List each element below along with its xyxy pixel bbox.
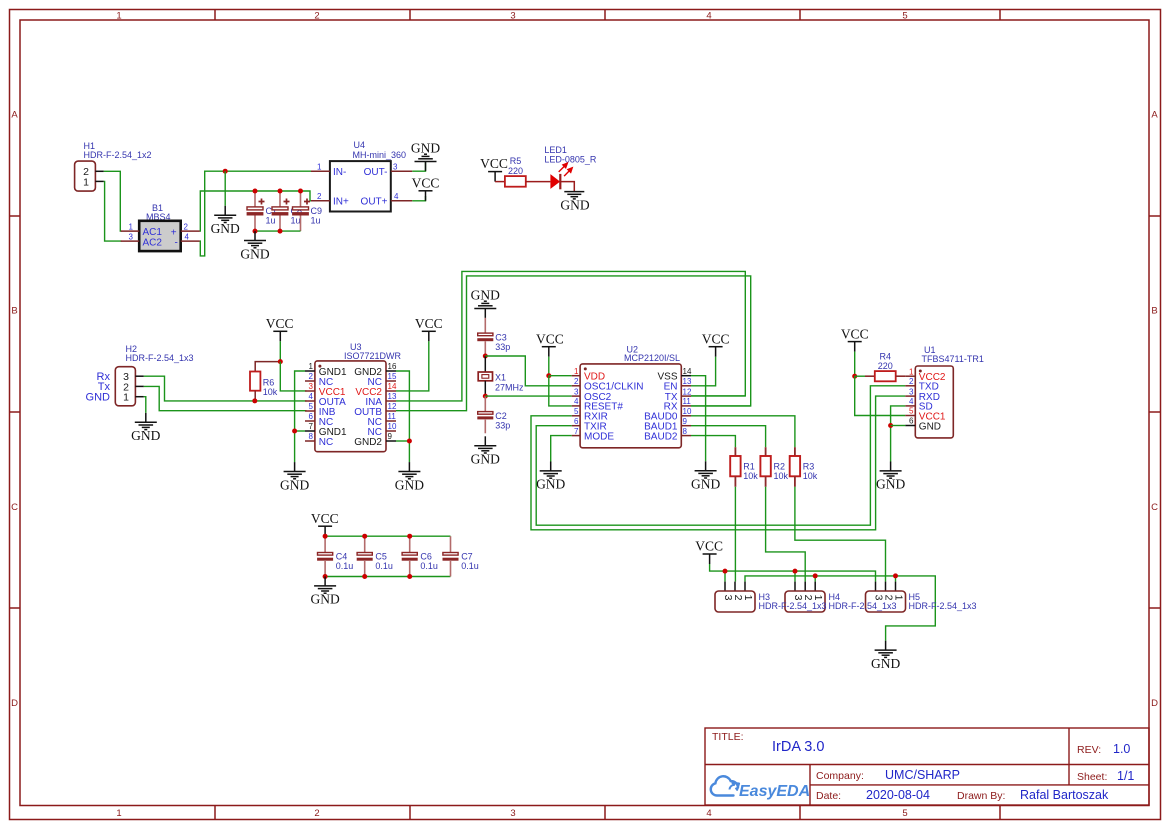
capacitor C2 bbox=[477, 396, 510, 433]
U3 pin 16 GND2 bbox=[354, 362, 397, 378]
U2 pin 3 OSC2 bbox=[572, 387, 612, 403]
ground (U2 MODE) bbox=[536, 462, 565, 492]
svg-text:GND: GND bbox=[536, 477, 565, 492]
U3 pin 5 INB bbox=[305, 402, 336, 418]
VCC flag (decoupling) bbox=[311, 511, 339, 536]
wire U2 TXIR to U1 TXD bbox=[536, 386, 905, 525]
svg-text:D: D bbox=[11, 698, 18, 709]
svg-text:1: 1 bbox=[129, 222, 134, 231]
U1 pin 3 RXD bbox=[905, 387, 940, 403]
svg-text:4: 4 bbox=[394, 192, 399, 201]
wire VCC down to junction bbox=[279, 341, 281, 361]
svg-text:R5: R5 bbox=[510, 156, 522, 166]
U2 pin 2 OSC1/CLKIN bbox=[572, 377, 644, 393]
U3 pin 6 NC bbox=[305, 412, 333, 428]
H1 pin 1 bbox=[95, 180, 103, 182]
H2 pin 1 bbox=[135, 396, 143, 398]
U2 pin 6 TXIR bbox=[572, 417, 607, 433]
H2 pin 3 bbox=[135, 375, 143, 377]
junction C4 bottom bbox=[323, 574, 328, 579]
junction X1 bottom bbox=[483, 394, 488, 399]
wire VCC rail line A bbox=[710, 564, 876, 582]
capacitor C5 bbox=[357, 536, 393, 576]
svg-text:2: 2 bbox=[309, 372, 314, 381]
wire U2 RXIR to U1 RXD bbox=[531, 396, 905, 530]
wire U2 BAUD0 to R3 bbox=[691, 416, 795, 447]
svg-text:1u: 1u bbox=[291, 216, 301, 226]
svg-text:HDR-F-2.54_1x2: HDR-F-2.54_1x2 bbox=[84, 150, 152, 160]
U3 pin 2 NC bbox=[305, 372, 333, 388]
svg-text:GND: GND bbox=[280, 477, 309, 492]
wire U3 GND2 chain bbox=[396, 371, 409, 462]
wire U2 TX stub bbox=[691, 395, 745, 397]
svg-text:27MHz: 27MHz bbox=[495, 382, 524, 392]
MCU U2 bbox=[580, 345, 681, 448]
svg-text:-: - bbox=[175, 238, 178, 249]
wire H2.1 to ground bbox=[144, 397, 146, 413]
wire VCC to U3 VCC2 bbox=[396, 341, 429, 391]
wire U2 BAUD2 to R1 bbox=[691, 436, 735, 448]
U2 pin 4 RESET# bbox=[572, 397, 624, 413]
U4 pin 2 bbox=[311, 192, 330, 201]
wire H1.2 to B1.1 bbox=[104, 171, 122, 231]
svg-text:4: 4 bbox=[706, 11, 711, 22]
svg-text:3: 3 bbox=[129, 232, 134, 241]
frame row letters bbox=[11, 110, 1158, 710]
svg-text:C9: C9 bbox=[311, 206, 323, 216]
svg-text:1: 1 bbox=[909, 367, 914, 376]
svg-text:GND: GND bbox=[876, 477, 905, 492]
svg-text:11: 11 bbox=[683, 397, 692, 406]
svg-text:15: 15 bbox=[388, 372, 397, 381]
svg-text:GND: GND bbox=[411, 141, 440, 156]
U2 pin 13 EN bbox=[664, 377, 692, 393]
U4 pin 1 bbox=[311, 162, 330, 171]
svg-text:C: C bbox=[11, 502, 18, 513]
U3 pin 8 NC bbox=[305, 432, 333, 448]
svg-text:12: 12 bbox=[683, 387, 692, 396]
svg-text:1: 1 bbox=[574, 367, 579, 376]
ground (U4 OUT-) flipped bbox=[411, 141, 440, 171]
svg-text:GND: GND bbox=[395, 477, 424, 492]
svg-text:OUT-: OUT- bbox=[364, 167, 388, 178]
isolator U3 bbox=[315, 342, 402, 452]
wire LED1 to ground bbox=[560, 182, 574, 191]
svg-text:5: 5 bbox=[309, 402, 314, 411]
svg-text:1: 1 bbox=[123, 392, 129, 404]
resistor R4 bbox=[865, 352, 905, 382]
wire U3 GND1 chain bbox=[295, 371, 305, 462]
wire U2 VSS to ground bbox=[691, 376, 706, 462]
ground (decoupling) bbox=[310, 577, 339, 607]
svg-text:3: 3 bbox=[510, 808, 515, 819]
junction H5.1 bbox=[893, 573, 898, 578]
wire R3 to H5.2 bbox=[795, 487, 886, 582]
wire B drop to H5.1 bbox=[895, 576, 897, 582]
frame column numbers bottom bbox=[116, 808, 907, 819]
VCC flag (U2 EN) bbox=[702, 331, 730, 356]
junction C6 top bbox=[407, 534, 412, 539]
junction C5 bottom bbox=[362, 574, 367, 579]
junction C8 bottom bbox=[278, 229, 283, 234]
svg-text:13: 13 bbox=[388, 392, 397, 401]
svg-text:OUT+: OUT+ bbox=[361, 197, 388, 208]
svg-text:BAUD2: BAUD2 bbox=[644, 431, 678, 442]
junction C1 top bbox=[253, 189, 258, 194]
wire U1 SD to ground bbox=[891, 406, 906, 462]
U3 pin 13 INA bbox=[365, 392, 397, 408]
svg-text:1: 1 bbox=[116, 11, 121, 22]
U2 pin 11 RX bbox=[664, 397, 692, 413]
svg-text:D: D bbox=[1151, 698, 1158, 709]
wire U2 MODE to ground bbox=[551, 436, 572, 462]
wire R1 to H3.2 bbox=[734, 487, 736, 582]
svg-text:VCC: VCC bbox=[695, 539, 723, 554]
capacitor C9 bbox=[292, 191, 322, 231]
H1 pin 2 bbox=[95, 170, 103, 172]
svg-text:B: B bbox=[1151, 306, 1157, 317]
svg-text:1u: 1u bbox=[311, 216, 321, 226]
junction C5 top bbox=[362, 534, 367, 539]
wire U4.3 to ground bbox=[412, 162, 425, 171]
connector H5 labels bbox=[909, 592, 977, 611]
svg-text:MODE: MODE bbox=[584, 431, 614, 442]
svg-text:ISO7721DWR: ISO7721DWR bbox=[344, 351, 402, 361]
title block texts bbox=[712, 731, 1134, 802]
B1 pin 1 bbox=[121, 222, 140, 231]
svg-text:10k: 10k bbox=[803, 471, 818, 481]
svg-text:1.0: 1.0 bbox=[1113, 742, 1130, 756]
connector H4 bbox=[785, 582, 825, 612]
svg-text:IN+: IN+ bbox=[333, 197, 349, 208]
svg-text:VCC: VCC bbox=[266, 316, 294, 331]
ground (LED1) bbox=[560, 192, 589, 213]
svg-text:9: 9 bbox=[388, 432, 393, 441]
svg-text:Rafal Bartoszak: Rafal Bartoszak bbox=[1020, 788, 1109, 802]
svg-text:C2: C2 bbox=[495, 411, 507, 421]
svg-text:7: 7 bbox=[574, 427, 579, 436]
svg-text:2: 2 bbox=[314, 808, 319, 819]
svg-text:7: 7 bbox=[309, 422, 314, 431]
ground (U3 side2) bbox=[395, 462, 424, 492]
svg-text:R4: R4 bbox=[880, 352, 892, 362]
junction R6 bottom bbox=[252, 398, 257, 403]
svg-text:220: 220 bbox=[508, 166, 523, 176]
VCC flag (R5) bbox=[480, 156, 508, 181]
resistor R1 bbox=[730, 447, 758, 487]
wire U2 EN to VCC bbox=[691, 357, 716, 386]
svg-text:A: A bbox=[1151, 110, 1158, 121]
U1 pin 2 TXD bbox=[905, 377, 939, 393]
wire U3.9 stub link bbox=[396, 440, 409, 442]
wire B1.4 to IN- rail bbox=[200, 171, 311, 256]
wire X1 top to U2 OSC1 bbox=[485, 356, 571, 386]
title block bbox=[705, 728, 1149, 805]
svg-text:C3: C3 bbox=[495, 332, 507, 342]
svg-text:2: 2 bbox=[909, 377, 914, 386]
svg-text:TITLE:: TITLE: bbox=[712, 731, 744, 743]
ground (H2) bbox=[131, 413, 160, 443]
ground (C3 top) flipped bbox=[471, 288, 500, 318]
junction H3.3 bbox=[723, 569, 728, 574]
svg-text:3: 3 bbox=[510, 11, 515, 22]
connector H1 bbox=[75, 141, 152, 191]
capacitor C7 bbox=[443, 536, 479, 576]
connector H5 bbox=[866, 582, 906, 612]
svg-text:GND: GND bbox=[310, 592, 339, 607]
svg-text:3: 3 bbox=[574, 387, 579, 396]
bridge rectifier B1 bbox=[139, 203, 181, 251]
wire VCC down to R4 junction bbox=[854, 352, 856, 377]
connector H4 labels bbox=[829, 592, 897, 611]
svg-text:33p: 33p bbox=[495, 421, 510, 431]
svg-text:1: 1 bbox=[812, 595, 824, 601]
svg-text:0.1u: 0.1u bbox=[336, 561, 354, 571]
junction H4.1 bbox=[813, 573, 818, 578]
svg-text:1: 1 bbox=[83, 176, 89, 188]
svg-text:GND: GND bbox=[691, 477, 720, 492]
svg-text:HDR-F-2.54_1x3: HDR-F-2.54_1x3 bbox=[126, 353, 194, 363]
svg-text:U4: U4 bbox=[354, 140, 366, 150]
connector H2 bbox=[115, 344, 193, 406]
ground (caps) bbox=[240, 231, 269, 261]
U3 pin 12 OUTB bbox=[354, 402, 397, 418]
wire cap bottom rail bbox=[255, 230, 301, 232]
U4 pin 3 bbox=[391, 162, 413, 171]
svg-text:5: 5 bbox=[909, 407, 914, 416]
svg-text:R3: R3 bbox=[803, 462, 815, 472]
B1 pin 3 bbox=[121, 232, 140, 241]
svg-text:C7: C7 bbox=[461, 551, 473, 561]
svg-text:0.1u: 0.1u bbox=[420, 561, 438, 571]
svg-text:1: 1 bbox=[317, 162, 322, 171]
U3 pin 15 NC bbox=[368, 372, 397, 388]
U3 pin 11 NC bbox=[368, 412, 397, 428]
U1 pin 6 GND bbox=[905, 417, 941, 433]
wire U3 INA loop to U2 TX bbox=[396, 271, 745, 401]
svg-text:C4: C4 bbox=[336, 551, 348, 561]
svg-text:VCC: VCC bbox=[841, 326, 869, 341]
wire IN- to ground bbox=[224, 171, 226, 206]
svg-text:2: 2 bbox=[314, 11, 319, 22]
svg-text:2020-08-04: 2020-08-04 bbox=[866, 788, 930, 802]
svg-text:GND: GND bbox=[471, 288, 500, 303]
U3 pin 10 NC bbox=[368, 422, 397, 438]
svg-text:GND: GND bbox=[131, 428, 160, 443]
svg-text:14: 14 bbox=[683, 367, 692, 376]
junction H4.3 bbox=[793, 569, 798, 574]
junction C4 top bbox=[323, 534, 328, 539]
crystal X1 bbox=[478, 356, 524, 396]
junction C9 top bbox=[298, 189, 303, 194]
U3 pin 14 VCC2 bbox=[355, 382, 397, 398]
svg-text:5: 5 bbox=[902, 808, 907, 819]
U2 pin 12 TX bbox=[665, 387, 692, 403]
capacitor C3 bbox=[477, 318, 510, 356]
junction C8 top bbox=[278, 189, 283, 194]
frame column numbers top bbox=[116, 11, 907, 22]
VCC flag (headers) bbox=[695, 539, 723, 564]
U2 pin 14 VSS bbox=[657, 367, 691, 383]
svg-text:R6: R6 bbox=[263, 378, 275, 388]
LED LED1 bbox=[544, 145, 597, 189]
U3 pin 1 GND1 bbox=[305, 362, 347, 378]
resistor R3 bbox=[790, 447, 818, 487]
svg-text:16: 16 bbox=[388, 362, 397, 371]
U2 pin 1 VDD bbox=[572, 367, 605, 383]
wire VDD junction to RESET# bbox=[549, 376, 572, 406]
capacitor C8 bbox=[272, 191, 302, 231]
transceiver U1 bbox=[915, 345, 984, 438]
junction R4 / VCC bbox=[852, 374, 857, 379]
svg-text:GND: GND bbox=[240, 246, 269, 261]
svg-text:14: 14 bbox=[388, 382, 397, 391]
wire U2 RX stub bbox=[691, 405, 751, 407]
svg-text:HDR-F-2.54_1x3: HDR-F-2.54_1x3 bbox=[759, 601, 827, 611]
svg-text:IrDA 3.0: IrDA 3.0 bbox=[772, 739, 824, 755]
ground (U3 side1) bbox=[280, 462, 309, 492]
svg-text:B: B bbox=[11, 306, 17, 317]
svg-text:1u: 1u bbox=[266, 216, 276, 226]
U3 pin 3 VCC1 bbox=[305, 382, 346, 398]
svg-text:5: 5 bbox=[574, 407, 579, 416]
connector H3 bbox=[715, 582, 755, 612]
svg-text:Company:: Company: bbox=[816, 770, 864, 782]
svg-text:10k: 10k bbox=[743, 471, 758, 481]
capacitor C1 bbox=[247, 191, 277, 231]
svg-text:2: 2 bbox=[317, 192, 322, 201]
svg-text:R2: R2 bbox=[774, 462, 786, 472]
svg-text:GND: GND bbox=[919, 421, 941, 432]
wire decoupling bottom rail bbox=[325, 576, 450, 578]
svg-text:VCC: VCC bbox=[702, 331, 730, 346]
svg-text:GND: GND bbox=[560, 198, 589, 213]
svg-text:8: 8 bbox=[309, 432, 314, 441]
wire decoupling top rail bbox=[325, 535, 450, 537]
U2 pin 5 RXIR bbox=[572, 407, 608, 423]
U4 pin 4 bbox=[391, 192, 413, 201]
ground (U2 VSS) bbox=[691, 461, 720, 491]
svg-text:10: 10 bbox=[683, 407, 692, 416]
svg-text:REV:: REV: bbox=[1077, 744, 1101, 756]
svg-text:Drawn By:: Drawn By: bbox=[957, 790, 1005, 802]
junction X1 top bbox=[483, 354, 488, 359]
resistor R6 bbox=[250, 362, 280, 401]
wire U3.7 stub link bbox=[295, 430, 305, 432]
wire R2 to H4.2 bbox=[766, 487, 806, 582]
svg-text:1/1: 1/1 bbox=[1117, 769, 1134, 783]
svg-text:C: C bbox=[1151, 502, 1158, 513]
svg-text:1: 1 bbox=[116, 808, 121, 819]
resistor R5 bbox=[505, 156, 526, 187]
svg-text:NC: NC bbox=[319, 437, 333, 448]
wire VCC to U2 VDD bbox=[548, 357, 550, 376]
svg-text:VCC: VCC bbox=[415, 316, 443, 331]
svg-text:0.1u: 0.1u bbox=[375, 561, 393, 571]
U2 pin 8 BAUD2 bbox=[644, 427, 691, 443]
VCC flag (U2 VDD) bbox=[536, 331, 564, 356]
svg-text:0.1u: 0.1u bbox=[461, 561, 479, 571]
junction IN- gnd tap bbox=[223, 169, 228, 174]
U1 pin 5 VCC1 bbox=[905, 407, 946, 423]
svg-text:GND: GND bbox=[86, 391, 111, 403]
junction U3.9 bbox=[407, 439, 412, 444]
svg-text:Date:: Date: bbox=[816, 790, 841, 802]
svg-text:10k: 10k bbox=[263, 387, 278, 397]
VCC flag (U3 VCC2) bbox=[415, 316, 443, 341]
wire A drop to H4.3 bbox=[794, 571, 796, 582]
junction U1 GND bbox=[888, 423, 893, 428]
U2 pin 10 BAUD0 bbox=[644, 407, 692, 423]
connector H3 labels bbox=[759, 592, 827, 611]
wire VDD junction to pin1 bbox=[549, 375, 572, 377]
wire B1.2 to IN+ rail bbox=[200, 191, 311, 231]
capacitor C6 bbox=[402, 536, 438, 576]
svg-text:6: 6 bbox=[909, 417, 914, 426]
svg-text:3: 3 bbox=[309, 382, 314, 391]
B1 pin 4 bbox=[181, 232, 200, 241]
svg-text:AC1: AC1 bbox=[143, 227, 163, 238]
svg-text:HDR-F-2.54_1x3: HDR-F-2.54_1x3 bbox=[829, 601, 897, 611]
svg-text:VCC: VCC bbox=[480, 156, 508, 171]
wire ground rail line B bbox=[745, 576, 935, 641]
svg-text:VCC: VCC bbox=[536, 331, 564, 346]
svg-text:TFBS4711-TR1: TFBS4711-TR1 bbox=[922, 354, 984, 364]
svg-text:A: A bbox=[11, 110, 18, 121]
svg-text:4: 4 bbox=[185, 232, 190, 241]
svg-text:IN-: IN- bbox=[333, 167, 346, 178]
svg-text:GND: GND bbox=[211, 221, 240, 236]
wire R5 to LED1 bbox=[526, 181, 551, 183]
svg-text:EasyEDA: EasyEDA bbox=[739, 783, 810, 800]
svg-text:VCC: VCC bbox=[412, 176, 440, 191]
junction C1 bottom bbox=[253, 229, 258, 234]
svg-text:HDR-F-2.54_1x3: HDR-F-2.54_1x3 bbox=[909, 601, 977, 611]
junction R6 top / VCC bbox=[278, 359, 283, 364]
svg-text:13: 13 bbox=[683, 377, 692, 386]
svg-text:GND: GND bbox=[471, 452, 500, 467]
svg-text:GND: GND bbox=[871, 656, 900, 671]
wire U2 BAUD1 to R2 bbox=[691, 426, 766, 448]
svg-text:MH-mini_360: MH-mini_360 bbox=[353, 150, 407, 160]
svg-text:6: 6 bbox=[309, 412, 314, 421]
svg-text:6: 6 bbox=[574, 417, 579, 426]
wire U4.4 to VCC bbox=[412, 196, 425, 201]
svg-text:9: 9 bbox=[683, 417, 688, 426]
wire VCC to R5 bbox=[495, 181, 505, 183]
svg-text:2: 2 bbox=[184, 222, 189, 231]
wire B drop to H4.1 bbox=[814, 576, 816, 582]
svg-text:MCP2120I/SL: MCP2120I/SL bbox=[624, 353, 680, 363]
ground (C2 bottom) bbox=[471, 436, 500, 466]
svg-text:1: 1 bbox=[742, 595, 754, 601]
junction U3.7 bbox=[292, 429, 297, 434]
svg-text:10: 10 bbox=[388, 422, 397, 431]
wire VCC to U3 VCC1 bbox=[280, 362, 306, 391]
svg-text:1: 1 bbox=[893, 595, 905, 601]
svg-text:3: 3 bbox=[393, 162, 398, 171]
ground (headers) bbox=[871, 641, 900, 671]
wire U3 OUTB loop to U2 RX bbox=[396, 276, 751, 411]
resistor R2 bbox=[760, 447, 788, 487]
U3 pin 4 OUTA bbox=[305, 392, 346, 408]
U2 pin 7 MODE bbox=[572, 427, 615, 443]
svg-text:GND2: GND2 bbox=[354, 437, 382, 448]
svg-text:10k: 10k bbox=[774, 471, 789, 481]
wire X1 bottom to U2 OSC2 bbox=[485, 395, 571, 397]
U1 pin 1 VCC2 bbox=[905, 367, 946, 383]
U1 pin 4 SD bbox=[905, 397, 932, 413]
